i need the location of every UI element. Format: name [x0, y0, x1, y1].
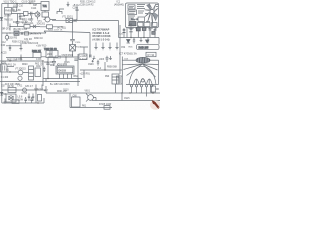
fan blade 3: [154, 8, 158, 12]
svg-text:FM06: FM06: [5, 10, 12, 12]
svg-text:IC1: IC1: [117, 2, 121, 4]
wire VT101 leads: [37, 11, 39, 20]
ground P4: [115, 43, 118, 50]
svg-text:TU1: TU1: [43, 6, 48, 8]
fan blade 5: [152, 13, 155, 20]
svg-text:C206 104 R2: C206 104 R2: [80, 4, 94, 6]
node J8: [104, 69, 105, 70]
svg-text:R60: R60: [50, 65, 55, 67]
box mid X: [138, 17, 145, 22]
diode VD201: [74, 19, 77, 22]
node J2: [9, 26, 10, 27]
ground G1: [30, 16, 33, 22]
svg-text:T302 DR 4C: T302 DR 4C: [44, 49, 57, 51]
svg-text:C909: C909: [88, 64, 94, 66]
wire bus y37.5: [119, 37, 160, 39]
svg-text:C616: C616: [64, 62, 70, 64]
svg-text:~220: ~220: [1, 62, 7, 64]
wire CRT right col: [158, 60, 160, 84]
arrow double: [131, 18, 138, 20]
box module outline: [126, 3, 159, 28]
box T601: [35, 68, 41, 77]
wire y72: [7, 71, 29, 74]
node J14: [129, 92, 130, 93]
svg-text:C1 5P: C1 5P: [29, 2, 36, 4]
diode VD102: [33, 25, 36, 28]
tick x46: [45, 79, 47, 82]
ground G5: [140, 38, 143, 43]
svg-text:C31 R3: C31 R3: [24, 39, 33, 41]
svg-text:C605 R609: C605 R609: [62, 55, 74, 57]
wire y57 psu: [48, 56, 56, 58]
rib left 3: [127, 64, 143, 76]
node bus J10: [143, 37, 144, 38]
CRT base beads: [130, 85, 132, 87]
box TL 2 dashes: [129, 12, 136, 14]
wire x120 col: [119, 25, 121, 57]
node video J: [9, 32, 10, 33]
pin comp 1: [123, 28, 126, 38]
svg-text:R62 C6: R62 C6: [35, 64, 44, 66]
box IF filter Z1: [5, 8, 12, 15]
pin comp 3 dark: [136, 28, 140, 31]
socket marks: [118, 78, 122, 82]
wire x77 down: [76, 14, 78, 21]
svg-text:R 605 1/2W: R 605 1/2W: [99, 104, 112, 106]
pole T left: [80, 47, 88, 54]
node bus61 J: [9, 60, 10, 61]
svg-text:C R61: C R61: [16, 59, 23, 61]
red mark halo: [150, 100, 161, 110]
box audio amp: [8, 88, 16, 93]
box video out flat: [137, 44, 160, 49]
svg-text:C R3: C R3: [36, 59, 42, 61]
capacitor C606: [74, 59, 77, 60]
svg-text:R61: R61: [82, 106, 87, 108]
capacitor C: [133, 38, 135, 44]
wire yoke left lead: [122, 59, 136, 61]
svg-text:3DG201: 3DG201: [37, 23, 46, 25]
svg-text:L903: L903: [99, 59, 105, 61]
mark lower mid: [146, 21, 150, 23]
wire y90: [2, 89, 46, 91]
hatch T302: [50, 51, 52, 58]
svg-text:R6: R6: [156, 89, 160, 91]
wire y26.5 mid: [40, 26, 62, 28]
plug marks: [2, 66, 5, 71]
transistor VT301: [5, 36, 9, 40]
svg-text:(8G-5F) C315: (8G-5F) C315: [13, 29, 28, 31]
pin comp 3 leads: [137, 26, 139, 38]
svg-text:V601: V601: [85, 91, 91, 93]
wire y20.5 long: [70, 20, 119, 22]
svg-text:C108: C108: [20, 16, 26, 18]
fan blade 2: [153, 4, 156, 10]
wire hook: [20, 55, 22, 62]
hatch R902: [112, 77, 119, 80]
ground P1: [94, 43, 97, 50]
ground G2: [67, 2, 70, 7]
svg-text:C617: C617: [36, 66, 42, 68]
transistor VT602: [18, 76, 22, 80]
svg-text:LS 8: LS 8: [18, 96, 23, 98]
capacitor C905: [97, 60, 99, 66]
svg-text:R201 C204 1/2: R201 C204 1/2: [80, 2, 96, 4]
svg-text:L105 C111: L105 C111: [23, 23, 35, 25]
box R331: [33, 53, 41, 58]
speaker circle: [9, 96, 13, 100]
wire x70: [69, 93, 71, 108]
capacitor C704: [32, 94, 34, 102]
wire sync row y57.5: [6, 56, 73, 59]
dome bump 3: [146, 79, 152, 85]
resistor R705: [38, 95, 42, 102]
capacitor C301: [70, 40, 75, 45]
wire x105: [104, 62, 106, 70]
capacitor C109: [16, 22, 19, 27]
box DY connector: [146, 52, 156, 56]
pin comp 4 dark: [142, 28, 146, 31]
svg-text:(4-280-1-2-5-6): (4-280-1-2-5-6): [93, 39, 110, 42]
wire T1 column: [44, 11, 46, 19]
capacitor C617: [43, 67, 46, 72]
box ceramic filter Z2: [24, 12, 29, 16]
diode VD702 on bus: [1, 92, 3, 94]
svg-text:DY 90: DY 90: [148, 54, 155, 57]
svg-text:C318 R3: C318 R3: [8, 38, 18, 40]
dome bump 2: [140, 79, 146, 85]
svg-text:R908 56K: R908 56K: [107, 67, 118, 69]
wire video bus y31: [2, 31, 90, 33]
svg-text:R90: R90: [105, 76, 110, 78]
wire y66: [7, 66, 14, 68]
svg-text:FU1 2A: FU1 2A: [8, 64, 16, 67]
capacitor C204: [76, 7, 79, 15]
wire V601 leads: [86, 94, 96, 102]
transistor VT102: [45, 17, 50, 22]
fan hub: [150, 10, 154, 14]
svg-text:R320 1K: R320 1K: [34, 38, 43, 40]
svg-text:7MB 5.6: 7MB 5.6: [4, 20, 13, 22]
wire y70: [80, 69, 122, 71]
yoke hatch: [137, 57, 149, 63]
ground G3: [20, 46, 23, 52]
wire R615 leads: [152, 85, 154, 94]
wire y103: [2, 102, 44, 104]
svg-text:4R7: 4R7: [44, 90, 49, 92]
wire CRT left col: [121, 57, 123, 94]
wire x90 drop: [89, 33, 91, 58]
svg-text:R1 6.8K: R1 6.8K: [13, 10, 22, 12]
svg-text:+115V: +115V: [80, 56, 87, 58]
svg-text:D6103: D6103: [59, 70, 67, 73]
box filter Z4: [24, 25, 30, 29]
wire lower IF row: [10, 26, 40, 28]
svg-text:R315 C317 1K: R315 C317 1K: [48, 30, 63, 32]
fan wheel: [145, 4, 159, 27]
box bridge VD301: [70, 45, 76, 52]
transistor V701: [23, 88, 27, 92]
fan blade 9: [145, 9, 151, 12]
wire x122 lower: [121, 93, 123, 101]
transistor VT601: [18, 70, 23, 75]
box CRT socket: [117, 76, 123, 84]
node video J2: [28, 32, 29, 33]
rib right 3: [143, 64, 156, 77]
connector XS1: [68, 20, 70, 22]
wire x46 step: [45, 86, 47, 93]
svg-text:XS7: XS7: [1, 86, 6, 88]
svg-text:VT 3DD15: VT 3DD15: [15, 69, 26, 71]
node bus J9: [130, 37, 131, 38]
wire module drop x127: [126, 28, 128, 38]
wire x84: [83, 70, 85, 78]
wire VT301 lead: [6, 33, 8, 41]
wire x72.5 column: [72, 21, 74, 40]
capacitor C906: [106, 56, 109, 62]
node J1: [16, 3, 17, 4]
ground G7: [4, 99, 7, 104]
capacitor C605: [52, 57, 56, 66]
node J15: [37, 102, 38, 103]
wire top bus: [2, 3, 41, 5]
wire bottom y107.5: [70, 107, 112, 109]
wire corner up: [43, 98, 45, 103]
pin bars bold: [123, 31, 133, 34]
svg-text:C41: C41: [119, 33, 124, 35]
svg-text:V101 TDQ-2: V101 TDQ-2: [4, 2, 18, 4]
box R608 small: [104, 106, 110, 110]
svg-text:VT1 3DG1: VT1 3DG1: [62, 17, 74, 19]
capacitor C302: [9, 45, 11, 51]
svg-text:C915: C915: [124, 98, 130, 100]
svg-text:+18V R10: +18V R10: [36, 45, 47, 47]
fan blade 4: [154, 13, 159, 16]
wire bus y61: [0, 60, 43, 62]
box inner TL 2: [128, 10, 137, 15]
fan blade 8: [145, 12, 150, 17]
wire x43: [42, 61, 44, 86]
box Z5: [42, 12, 49, 17]
svg-text:C/R 4.7: C/R 4.7: [25, 86, 34, 88]
diode X in box: [70, 45, 76, 52]
svg-text:38.0M: 38.0M: [4, 16, 10, 18]
node J7: [47, 78, 48, 79]
CRT pin leads: [132, 87, 152, 93]
node J5: [9, 71, 10, 72]
box bias R201: [66, 18, 73, 22]
svg-text:B+ 115V ADJ R615: B+ 115V ADJ R615: [50, 83, 70, 86]
wire y46: [6, 43, 21, 46]
diode VD dark: [127, 40, 131, 43]
wire drop to Z1: [8, 4, 17, 9]
wire x72.5 lower: [72, 51, 74, 57]
box Z1b: [13, 7, 17, 11]
DL dash: [15, 32, 18, 34]
box R707: [12, 100, 19, 103]
pin comp 5: [149, 27, 152, 38]
node J13: [152, 92, 154, 94]
svg-text:+12V R91: +12V R91: [80, 74, 91, 76]
wire bus y81.5: [0, 81, 80, 83]
wire x36: [35, 85, 37, 104]
svg-text:R45: R45: [129, 47, 134, 49]
wire y20: [52, 19, 77, 21]
pin comp 4 leads: [143, 26, 145, 38]
wire tick x146: [146, 93, 148, 97]
wire x118.5 drop: [118, 21, 120, 38]
diode VD2 dark: [146, 40, 149, 43]
fan wedge dark: [147, 4, 152, 10]
svg-text:ICT 4705(6) 3A: ICT 4705(6) 3A: [119, 52, 137, 56]
hatch R601: [29, 70, 34, 77]
wire yoke right lead: [150, 59, 159, 61]
box R pack K1: [79, 54, 87, 60]
capacitor C707: [30, 97, 33, 103]
box R902 pack: [112, 74, 119, 84]
capacitor C104: [31, 12, 32, 16]
resistor R601 tall: [29, 66, 34, 80]
svg-text:L601: L601: [47, 54, 53, 56]
capacitor C611 on x48: [46, 63, 49, 64]
wire left bus: [1, 4, 3, 104]
fan blade 10: [147, 5, 152, 10]
box trap Z301: [25, 32, 29, 35]
svg-text:(9R-2F): (9R-2F): [2, 29, 10, 31]
svg-text:30P: 30P: [33, 5, 38, 7]
dome inner verticals: [136, 79, 149, 85]
transistor V601: [88, 95, 94, 101]
box IC01 regulator inner: [57, 67, 73, 73]
box tuner T1: [41, 2, 49, 11]
box bottom mid: [138, 22, 144, 26]
marks top right corner: [156, 5, 159, 7]
wire psu top cont: [60, 56, 78, 58]
svg-text:0.5W: 0.5W: [18, 100, 24, 102]
node J1b: [29, 3, 30, 4]
fan blade 6: [151, 14, 153, 27]
pin comp 7 dark: [152, 32, 155, 35]
fan blade 7: [148, 13, 151, 22]
node bus61 J2: [42, 60, 43, 61]
svg-text:C40: C40: [1, 45, 6, 47]
rib far left 1: [122, 63, 142, 66]
node J6: [65, 56, 66, 57]
red pen mark: [152, 100, 160, 109]
scan noise overlay: [0, 0, 160, 110]
svg-text:3A-7M +7V: 3A-7M +7V: [30, 32, 42, 35]
box IC01 regulator outer: [56, 66, 74, 74]
wire long y93: [46, 92, 160, 94]
svg-text:C114: C114: [31, 8, 37, 10]
wire VT102 leads: [44, 17, 57, 20]
pin comp 2: [130, 27, 133, 38]
module pin stubs: [129, 28, 156, 30]
capacitor C703: [28, 94, 30, 102]
marks mid gap: [138, 11, 148, 14]
box driver transformer T302: [46, 51, 58, 58]
svg-text:Q1: Q1: [6, 69, 10, 71]
wire drop J2: [9, 24, 11, 31]
svg-text:(AN5640): (AN5640): [114, 4, 124, 7]
inductor L601: [56, 55, 60, 58]
pin bars column: [128, 16, 135, 26]
wire CRT left col 2: [119, 57, 121, 75]
node J12: [121, 92, 122, 93]
box bottom-left dark: [129, 22, 136, 26]
rib far left 2: [124, 64, 143, 70]
svg-text:RGB 105: RGB 105: [139, 46, 150, 49]
node J11: [35, 89, 36, 90]
wire x42: [41, 85, 43, 91]
svg-text:C113 R5: C113 R5: [22, 19, 32, 21]
CRT base line: [126, 84, 159, 86]
wire y78.5: [43, 78, 82, 80]
svg-text:R601 2W: R601 2W: [57, 91, 67, 93]
diode VD101 on bus: [0, 18, 2, 20]
svg-text:R620: R620: [22, 64, 28, 66]
box bottom right small: [152, 23, 158, 27]
svg-text:R61: R61: [74, 76, 79, 78]
node J3: [61, 26, 62, 27]
box heater reg: [72, 97, 81, 107]
svg-text:T701: T701: [17, 86, 23, 88]
dome inner circle: [141, 79, 144, 82]
svg-text:C320: C320: [75, 42, 81, 44]
capacitor C2: [147, 38, 149, 44]
box speaker: [6, 94, 16, 102]
svg-text:AC25: AC25: [1, 51, 7, 54]
svg-text:R331 1K: R331 1K: [32, 51, 41, 53]
wire IF row: [12, 13, 36, 15]
box Z6: [47, 25, 53, 29]
deflection yoke ellipse: [136, 57, 150, 63]
pole arrow sym: [92, 56, 96, 62]
wire x17.5 column: [17, 14, 19, 22]
wire x66 drop: [65, 57, 67, 62]
pin comp 6: [154, 28, 157, 38]
svg-text:C12: C12: [2, 42, 7, 44]
svg-text:R306 C306 4.7K: R306 C306 4.7K: [12, 42, 29, 44]
box bottom mid2: [144, 22, 150, 26]
box delay line DL: [14, 31, 19, 35]
fan wedge dark 2: [153, 13, 158, 21]
capacitor C330: [90, 55, 92, 58]
wire x48 col: [47, 57, 49, 79]
wire right edge col: [158, 38, 160, 45]
CRT dome outline: [129, 66, 156, 84]
box TL 1 dashes: [129, 6, 134, 8]
bracket symbol: [57, 9, 64, 14]
box AC input XP: [1, 64, 8, 72]
svg-text:C52: C52: [121, 47, 126, 49]
rib right 2: [143, 64, 158, 70]
svg-text:L102 C10: L102 C10: [13, 6, 24, 8]
ground P2: [101, 43, 104, 50]
diode VD302: [21, 32, 23, 35]
svg-text:VL2: VL2: [97, 68, 102, 70]
svg-text:C702 1C: C702 1C: [34, 89, 43, 91]
svg-text:IC01 STR: IC01 STR: [57, 64, 67, 66]
ground P3: [108, 43, 111, 50]
rib far right 1: [143, 63, 159, 66]
IC01 pins: [60, 74, 72, 79]
speaker cross: [8, 96, 14, 100]
svg-text:C705: C705: [22, 93, 28, 95]
capacitor C706: [24, 97, 27, 103]
box R615: [151, 86, 156, 92]
wire Z1 down: [7, 14, 9, 27]
